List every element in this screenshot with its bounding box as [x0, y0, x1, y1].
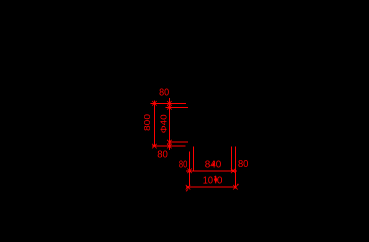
wire: right riser pipe right wall / extension line [235, 146, 237, 187]
tick arrow at dim 1010 left [186, 185, 191, 191]
wire: bottom pipe upper line [170, 141, 188, 143]
tick arrow cluster at dim 80 top right [167, 101, 172, 110]
tick arrow at dim 840 left [187, 169, 192, 174]
center mark diamond over 1010 text [214, 176, 217, 183]
svg-text:800: 800 [142, 114, 152, 131]
tick blob at dim 1010 right [234, 186, 236, 188]
tick arrow at dim 1010 right [233, 185, 238, 190]
wire: dim line 1010 [186, 186, 237, 188]
dot near dim 1010 right [237, 184, 238, 185]
tick blob at dim 1010 left [187, 186, 189, 188]
filled triangle look of digit 4 in 840 [212, 161, 215, 165]
center mark stem over 1010 text (digit 1 with flag) [214, 176, 215, 184]
wire: dim line 840 row [186, 170, 237, 172]
svg-text:80: 80 [238, 159, 249, 170]
tick arrow at dim 840 right [231, 169, 236, 174]
tick arrow cluster at dim 80 bottom right [167, 140, 172, 149]
svg-text:10: 10 [203, 176, 214, 187]
tick arrow at dim 80 top left [152, 101, 157, 106]
tick blob at dim 840 right [232, 170, 234, 172]
svg-text:80: 80 [159, 87, 169, 98]
svg-text:80: 80 [179, 160, 188, 171]
wire: left riser pipe right wall [193, 147, 195, 171]
tick arrow at dim 80 bottom left [152, 144, 157, 149]
wire: left extension line of dim 800 [154, 100, 156, 146]
svg-text:0: 0 [217, 176, 223, 187]
wire: bottom pipe lower line / dim line 80 bottom [152, 145, 186, 147]
wire: right vertical pipe line phi40 [169, 98, 171, 150]
wire: right riser pipe left wall [231, 146, 233, 171]
tick blob at dim 840 left [189, 170, 191, 172]
wire: top pipe upper line / dim line 80 top [150, 103, 186, 105]
wire: top pipe lower line [166, 107, 188, 109]
wire: left riser pipe left wall [189, 151, 191, 185]
svg-text:Φ40: Φ40 [158, 114, 168, 133]
svg-text:80: 80 [157, 149, 168, 160]
